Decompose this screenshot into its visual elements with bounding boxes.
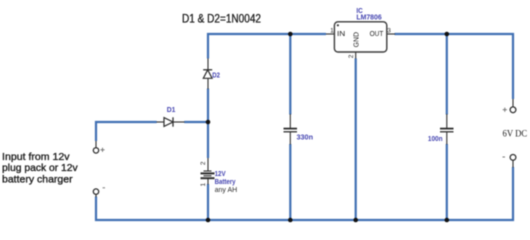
svg-text:any AH: any AH (215, 185, 238, 194)
wire D2 cathode... anode to node A (207, 89, 209, 124)
input + terminal (93, 141, 98, 153)
output - terminal (510, 155, 516, 168)
svg-text:2: 2 (200, 161, 207, 165)
svg-text:D1 & D2=1N0042: D1 & D2=1N0042 (182, 13, 261, 25)
junction 330n bottom on rail (288, 218, 293, 223)
junction node A (D1/D2/battery) (206, 120, 211, 125)
input - sign (103, 187, 105, 189)
svg-text:6V DC: 6V DC (503, 129, 528, 139)
input + sign (100, 148, 104, 152)
wire top rail left (D2 top corner to IC pin 1) (208, 34, 326, 59)
output + sign (503, 108, 507, 112)
wire 330n top branch (289, 33, 291, 115)
svg-text:2: 2 (348, 54, 355, 58)
wire 330n bottom branch (289, 144, 291, 221)
wire 100n top branch (446, 33, 448, 115)
junction battery bottom on rail (206, 218, 211, 223)
wire top rail right (IC pin 3 to + output corner) (395, 34, 514, 99)
svg-text:1: 1 (200, 183, 207, 187)
junction 100n top on rail (445, 32, 450, 37)
junction 330n top on rail (288, 32, 293, 37)
capacitor C2 100n (440, 114, 454, 145)
svg-text:330n: 330n (297, 132, 314, 141)
svg-text:OUT: OUT (370, 29, 384, 38)
svg-text:Input from 12v: Input from 12v (2, 151, 70, 163)
diode D2 (203, 58, 212, 89)
regulator U1 LM7806 body (326, 22, 395, 59)
svg-text:1: 1 (330, 28, 334, 35)
svg-text:battery charger: battery charger (2, 173, 73, 185)
diode D1 (157, 117, 185, 126)
junction 100n bottom on rail (445, 218, 450, 223)
svg-text:LM7806: LM7806 (356, 14, 381, 21)
output + terminal (510, 99, 516, 113)
junction GND pin on rail (353, 218, 358, 223)
wire D1 cathode to node A (184, 121, 209, 123)
svg-text:IN: IN (337, 29, 345, 38)
wire battery bottom to bottom rail (207, 184, 209, 221)
output - sign (503, 156, 506, 158)
svg-text:100n: 100n (428, 134, 443, 143)
wire - input terminal down to bottom rail and bottom rail to - output terminal (96, 167, 513, 220)
wire 100n bottom branch (446, 144, 448, 221)
svg-text:GND: GND (351, 31, 360, 47)
battery B1 (12V) (201, 158, 215, 185)
capacitor C1 330n (284, 114, 298, 145)
annotation "Input from 12v plug pack or 12v battery charger" (2, 151, 78, 185)
svg-text:D2: D2 (212, 70, 220, 79)
svg-text:D1: D1 (167, 105, 176, 114)
wire IC GND pin 2 to bottom rail (355, 58, 357, 221)
input - terminal (93, 189, 98, 197)
wire node A to battery top (207, 121, 209, 158)
svg-text:3: 3 (387, 28, 391, 35)
wire + input terminal to input corner (96, 122, 157, 141)
